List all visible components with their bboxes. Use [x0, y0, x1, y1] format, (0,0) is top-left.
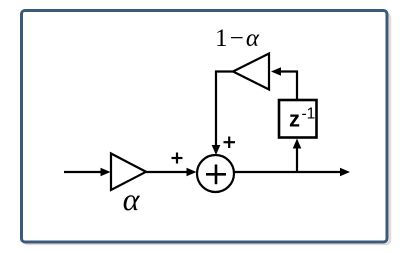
- gain block alpha (triangle): [111, 154, 146, 191]
- wire: output tap up into delay: [296, 147, 298, 172]
- svg-text:α: α: [123, 181, 141, 217]
- svg-text:1 − α: 1 − α: [215, 25, 260, 52]
- gain block 1-alpha (left-pointing triangle): [233, 54, 269, 90]
- plus sign label (top input of summer): [224, 137, 236, 149]
- arrowhead into delay bottom: [293, 139, 302, 149]
- plus sign label (left input of summer): [172, 153, 183, 164]
- wire: delay to gain 1-alpha: [280, 72, 297, 101]
- arrowhead output: [340, 168, 350, 177]
- wire: output: [234, 171, 341, 173]
- arrowhead into gain alpha: [101, 168, 111, 177]
- svg-text:z: z: [289, 107, 300, 132]
- wire: gain alpha to summer: [146, 171, 188, 173]
- arrowhead into summer top: [212, 145, 221, 155]
- summing junction U1: [197, 155, 234, 192]
- arrowhead into summer left: [187, 168, 197, 177]
- wire: input: [64, 171, 101, 173]
- wire: feedback down into summer: [216, 72, 233, 147]
- plus sign inside summer: [206, 165, 226, 185]
- delay block z^-1: [279, 100, 317, 138]
- arrowhead into gain 1-alpha: [271, 67, 281, 76]
- svg-text:-1: -1: [302, 106, 316, 123]
